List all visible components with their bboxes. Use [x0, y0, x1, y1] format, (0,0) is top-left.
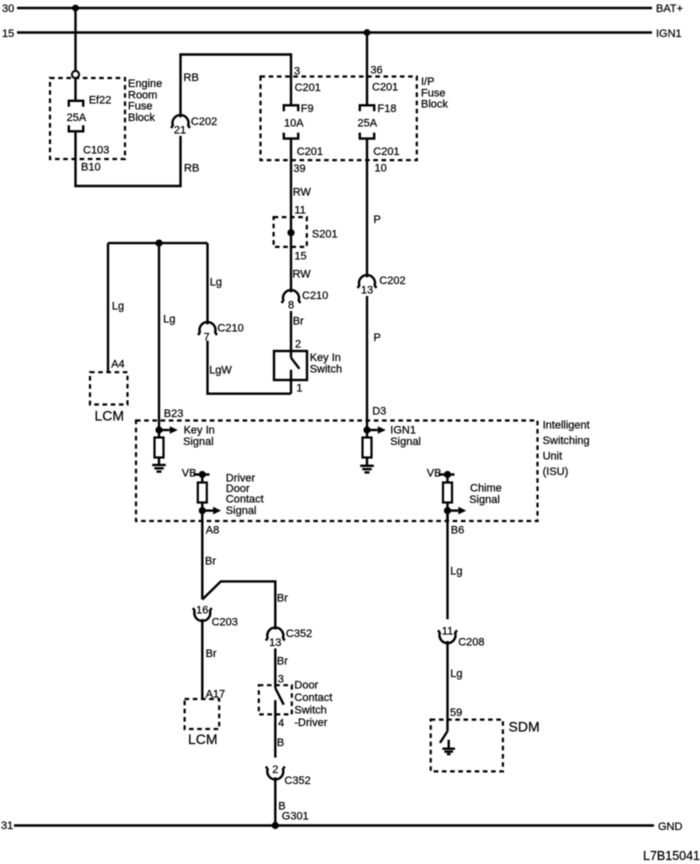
svg-text:Br: Br	[277, 656, 288, 668]
wire split to LCM A4 (Lg)	[107, 243, 109, 372]
connector C208 pin 11	[438, 626, 484, 649]
svg-text:8: 8	[288, 299, 294, 311]
svg-text:F9: F9	[301, 103, 314, 115]
svg-text:7: 7	[203, 331, 209, 343]
svg-text:Br: Br	[293, 316, 304, 328]
wire C352-13 to door switch (Br)	[274, 649, 276, 686]
svg-text:F18: F18	[378, 103, 397, 115]
svg-text:-Driver: -Driver	[294, 717, 327, 729]
svg-text:C201: C201	[295, 82, 321, 94]
wire C208-11 to SDM 59 (Lg)	[446, 641, 448, 731]
SDM box	[431, 719, 540, 772]
svg-text:RB: RB	[184, 163, 199, 175]
node Chime Signal junction	[444, 507, 451, 514]
svg-text:S201: S201	[312, 229, 338, 241]
wire from line 30 down to fuse block	[74, 8, 76, 71]
svg-text:Chime: Chime	[470, 482, 502, 494]
svg-text:P: P	[374, 332, 381, 344]
Key In Signal arrow	[159, 425, 215, 449]
switch inside SDM	[440, 731, 448, 743]
svg-text:RW: RW	[293, 187, 312, 199]
svg-text:I/P: I/P	[421, 76, 434, 88]
svg-text:Room: Room	[128, 89, 157, 101]
wire C202-21 up and right to F9 (RB)	[181, 55, 292, 118]
svg-text:RB: RB	[184, 72, 199, 84]
svg-text:13: 13	[269, 637, 281, 649]
svg-text:Block: Block	[421, 99, 448, 111]
node G301 junction	[272, 822, 279, 829]
svg-text:C203: C203	[212, 617, 238, 629]
node junction on line 30	[72, 5, 79, 12]
svg-text:G301: G301	[282, 811, 309, 823]
svg-text:Signal: Signal	[390, 436, 421, 448]
node open circle connector at fuse block	[72, 71, 79, 78]
svg-text:Contact: Contact	[294, 692, 332, 704]
Driver Door Contact Signal arrow	[202, 472, 263, 517]
I/P Fuse Block dashed box	[261, 76, 449, 160]
svg-text:C210: C210	[302, 290, 328, 302]
svg-text:Switch: Switch	[310, 364, 342, 376]
svg-text:A4: A4	[111, 359, 124, 371]
svg-text:BAT+: BAT+	[656, 3, 683, 15]
svg-text:10: 10	[375, 163, 387, 175]
svg-text:Switch: Switch	[294, 705, 326, 717]
svg-text:LCM: LCM	[188, 731, 218, 747]
wire C210-8 to Key In Switch (Br)	[290, 311, 292, 351]
svg-text:Lg: Lg	[450, 566, 462, 578]
svg-text:16: 16	[196, 605, 208, 617]
svg-text:Signal: Signal	[469, 494, 500, 506]
connector C202 pin 13	[358, 275, 406, 296]
svg-text:Br: Br	[206, 648, 217, 660]
Door Contact Switch - Driver	[259, 679, 333, 729]
svg-text:L7B15041: L7B15041	[643, 849, 700, 863]
wire branch to C352-13 (Br)	[202, 581, 275, 629]
svg-text:A8: A8	[206, 525, 219, 537]
svg-text:C202: C202	[379, 275, 405, 287]
wire door switch to C352-2 (B)	[274, 714, 276, 757]
svg-text:C208: C208	[458, 637, 484, 649]
svg-text:IGN1: IGN1	[656, 28, 682, 40]
resistor (ign1)	[363, 430, 372, 458]
svg-text:Unit: Unit	[543, 451, 563, 463]
svg-text:GND: GND	[658, 821, 683, 833]
LCM box (A17)	[185, 699, 220, 747]
connector C352 pin 2	[266, 764, 311, 787]
svg-text:3: 3	[278, 674, 284, 686]
connector C352 pin 13	[266, 628, 312, 649]
svg-text:21: 21	[174, 124, 186, 136]
fuse F9 10A	[284, 103, 314, 139]
svg-text:P: P	[374, 214, 381, 226]
svg-text:Engine: Engine	[128, 78, 162, 90]
svg-text:C201: C201	[372, 82, 398, 94]
Chime Signal arrow	[448, 482, 502, 514]
wire F9 to S201 (RW)	[290, 139, 292, 233]
svg-text:2: 2	[272, 764, 278, 776]
bus line 15 IGN1	[2, 28, 682, 40]
connector C203 pin 16	[193, 605, 238, 629]
wire split to ISU B23 (Lg)	[158, 243, 160, 430]
IGN1 Signal arrow	[367, 425, 421, 449]
svg-text:B6: B6	[451, 525, 464, 537]
ground (key in)	[152, 458, 166, 472]
bus line 31 GND	[1, 820, 683, 833]
Engine Room Fuse Block dashed box	[50, 78, 162, 159]
wire C202-13 to ISU D3 (P)	[366, 296, 368, 430]
wire split horizontal	[108, 242, 208, 244]
svg-text:C352: C352	[284, 775, 310, 787]
svg-text:C352: C352	[286, 628, 312, 640]
VB feed (chime)	[427, 468, 455, 480]
svg-text:25A: 25A	[358, 118, 378, 130]
svg-text:Key In: Key In	[310, 352, 341, 364]
svg-text:Lg: Lg	[112, 301, 124, 313]
svg-text:(ISU): (ISU)	[543, 466, 569, 478]
svg-text:Signal: Signal	[226, 505, 257, 517]
svg-text:Block: Block	[128, 112, 155, 124]
svg-text:2: 2	[295, 339, 301, 351]
svg-text:C201: C201	[373, 146, 399, 158]
wire S201 to C210 pin 8 (RW)	[290, 233, 292, 293]
wire C352-2 to G301 (B)	[274, 777, 276, 825]
wire ISU A8 down to split (Br)	[201, 511, 203, 600]
wire line 15 to fuse F18	[366, 33, 368, 106]
svg-text:11: 11	[442, 626, 453, 638]
svg-text:Lg: Lg	[210, 277, 222, 289]
splice S201 dashed box	[274, 217, 338, 247]
svg-text:4: 4	[278, 718, 284, 730]
Intelligent Switching Unit dashed box	[136, 420, 590, 522]
svg-text:Ef22: Ef22	[89, 95, 112, 107]
wire C203-16 to LCM A17 (Br)	[201, 619, 203, 699]
svg-text:36: 36	[370, 65, 382, 77]
svg-text:1: 1	[296, 383, 302, 395]
svg-text:11: 11	[294, 205, 305, 217]
svg-text:31: 31	[1, 820, 13, 832]
svg-text:A17: A17	[206, 689, 226, 701]
svg-text:LCM: LCM	[95, 408, 125, 424]
Key In Switch	[274, 351, 342, 394]
resistor (driver door)	[198, 475, 207, 522]
bus line 30 BAT+	[2, 3, 683, 15]
node Driver Door Contact Signal junction	[199, 507, 206, 514]
svg-text:B23: B23	[164, 408, 184, 420]
svg-text:25A: 25A	[67, 112, 87, 124]
LCM box (A4)	[90, 372, 128, 423]
svg-text:C201: C201	[297, 146, 323, 158]
svg-text:Lg: Lg	[450, 668, 462, 680]
connector C210 pin 8	[282, 290, 329, 311]
wire C210-7 up to split (Lg)	[206, 243, 208, 324]
wire fuse Ef22 to C202 pin 21 (B10 / RB)	[76, 131, 181, 186]
svg-text:Door: Door	[294, 679, 318, 691]
wire circle to fuse Ef22	[74, 78, 76, 101]
svg-text:B: B	[277, 737, 284, 749]
svg-text:SDM: SDM	[509, 719, 540, 735]
svg-text:39: 39	[293, 163, 305, 175]
svg-text:LgW: LgW	[209, 365, 232, 377]
node IGN1 Signal junction	[363, 426, 370, 433]
svg-text:Br: Br	[277, 593, 288, 605]
connector C210 pin 7	[198, 322, 244, 343]
svg-text:Signal: Signal	[183, 436, 214, 448]
node junction on line 15	[364, 29, 371, 36]
svg-text:Intelligent: Intelligent	[543, 420, 590, 432]
svg-text:30: 30	[2, 3, 14, 15]
svg-text:C210: C210	[217, 323, 243, 335]
svg-text:13: 13	[361, 284, 373, 296]
svg-text:Contact: Contact	[226, 493, 264, 505]
node junction at split	[155, 240, 162, 247]
svg-text:15: 15	[2, 28, 14, 40]
svg-text:RW: RW	[293, 269, 312, 281]
resistor (chime)	[443, 475, 452, 522]
svg-text:10A: 10A	[284, 118, 304, 130]
wire F18 to C202 pin 13 (P)	[366, 139, 368, 278]
svg-text:C103: C103	[83, 145, 109, 157]
svg-text:B10: B10	[81, 162, 101, 174]
ground inside SDM	[442, 740, 455, 754]
resistor (key in)	[155, 430, 164, 458]
ground (ign1)	[360, 458, 374, 473]
svg-text:15: 15	[294, 251, 306, 263]
svg-text:Br: Br	[205, 556, 216, 568]
node Key In Signal junction	[155, 426, 162, 433]
fuse F18 25A	[358, 103, 397, 139]
svg-text:IGN1: IGN1	[390, 425, 416, 437]
svg-text:Key In: Key In	[184, 425, 215, 437]
fuse Ef22 25A	[67, 95, 112, 132]
svg-text:Fuse: Fuse	[421, 87, 445, 99]
connector C202 pin 21	[171, 115, 217, 136]
svg-text:Lg: Lg	[163, 314, 175, 326]
wire Key In Switch to C210 pin 7 (LgW)	[208, 341, 292, 394]
svg-text:D3: D3	[372, 406, 386, 418]
svg-text:Switching: Switching	[543, 435, 590, 447]
svg-text:59: 59	[450, 707, 462, 719]
svg-text:Fuse: Fuse	[128, 101, 152, 113]
svg-text:C202: C202	[191, 116, 217, 128]
VB feed (driver door)	[182, 468, 210, 480]
wire ISU B6 to C208-11 (Lg)	[446, 511, 448, 620]
